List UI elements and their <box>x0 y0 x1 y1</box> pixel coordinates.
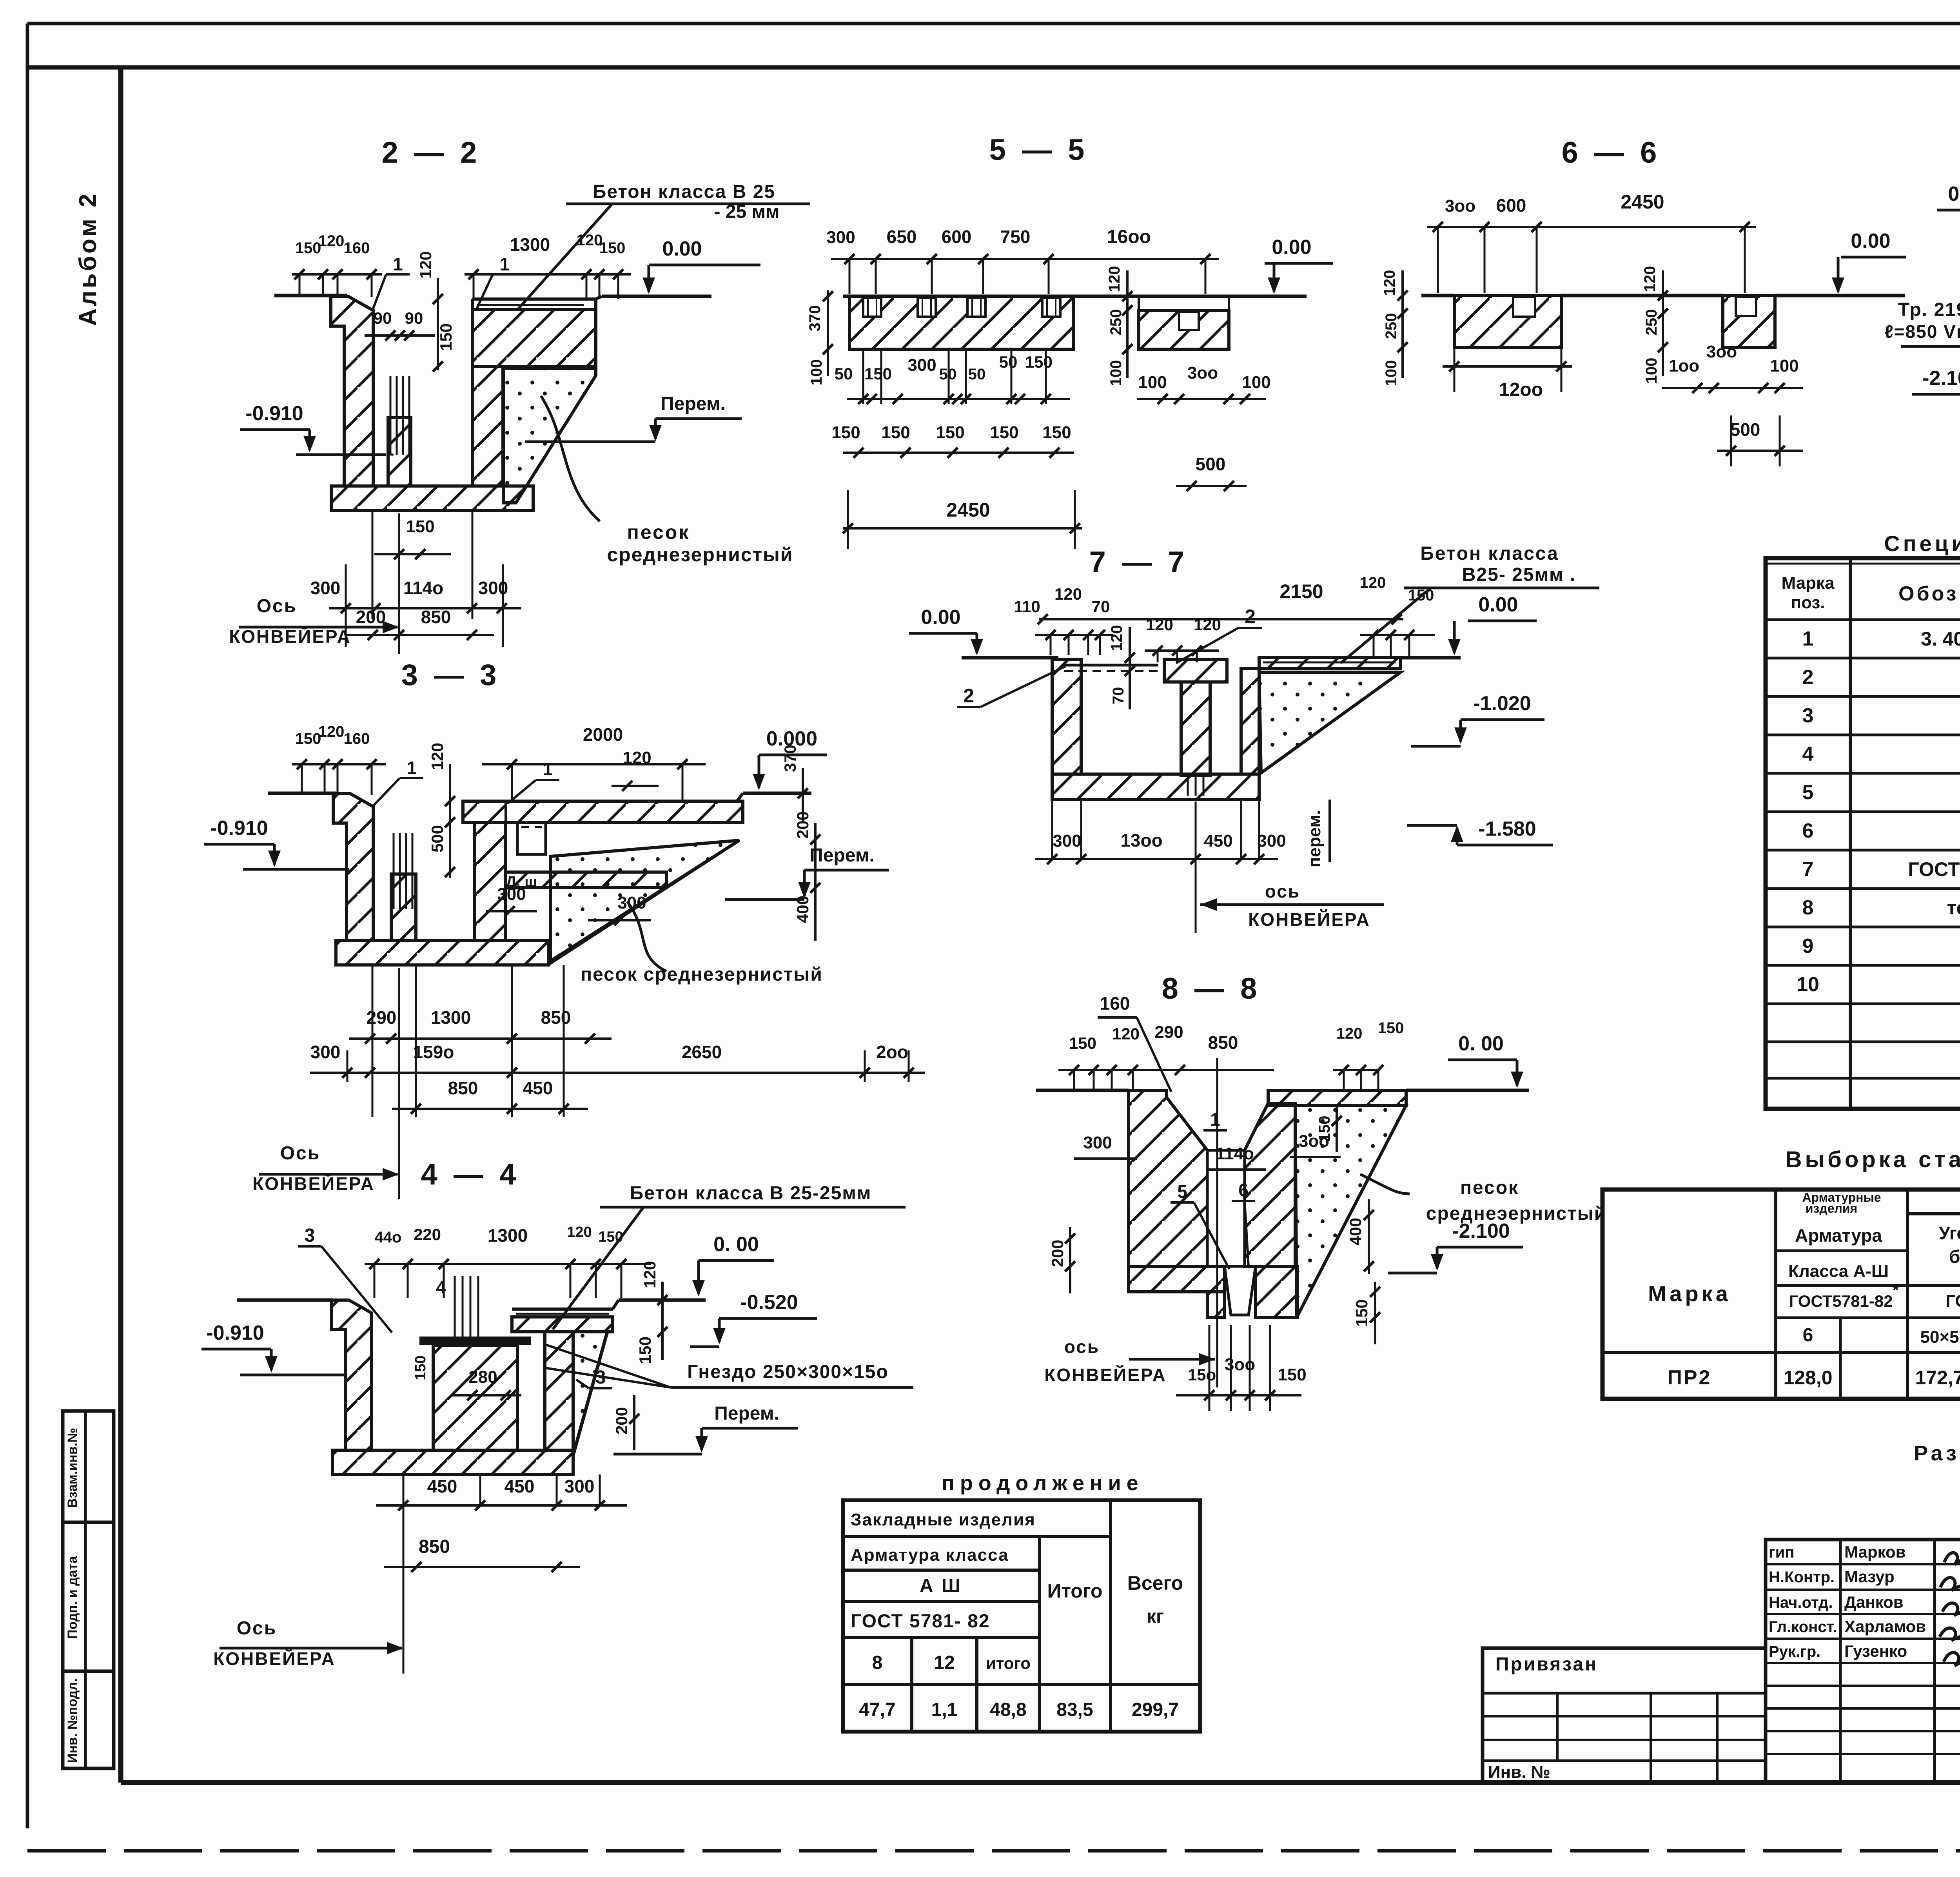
svg-text:-0.520: -0.520 <box>740 1291 798 1314</box>
svg-text:150: 150 <box>1278 1365 1306 1384</box>
section 4-4 ground left <box>237 1298 332 1302</box>
svg-text:0.00: 0.00 <box>921 606 960 629</box>
svg-text:1: 1 <box>499 254 510 274</box>
svg-text:Данков: Данков <box>1844 1593 1904 1611</box>
svg-text:120: 120 <box>567 1224 592 1240</box>
left margin stamp boxes <box>63 1411 114 1768</box>
section 5-5 top dims <box>831 258 1219 260</box>
svg-text:0. 00: 0. 00 <box>1458 1032 1504 1055</box>
svg-text:продолжение: продолжение <box>942 1471 1144 1495</box>
svg-text:12: 12 <box>934 1652 955 1673</box>
svg-text:160: 160 <box>344 239 370 257</box>
section 7-7 dim 2150 <box>1039 618 1403 620</box>
svg-text:ГОСТ 23279-85: ГОСТ 23279-85 <box>1908 858 1960 880</box>
svg-text:114о: 114о <box>403 578 443 598</box>
svg-text:7: 7 <box>1802 858 1814 881</box>
svg-text:ℓ=850 Vн- 2,4оо: ℓ=850 Vн- 2,4оо <box>1884 321 1960 342</box>
svg-text:150: 150 <box>1378 1019 1404 1037</box>
svg-text:КОНВЕЙЕРА: КОНВЕЙЕРА <box>229 626 351 647</box>
svg-text:6: 6 <box>1238 1180 1249 1200</box>
svg-text:поз.: поз. <box>1791 593 1825 612</box>
section 3-3 witness below <box>372 965 374 1117</box>
svg-text:КОНВЕЙЕРА: КОНВЕЙЕРА <box>1248 909 1370 930</box>
svg-text:70: 70 <box>1110 687 1127 705</box>
svg-text:150: 150 <box>599 239 626 257</box>
spec table grid <box>1766 558 1960 1109</box>
svg-text:ось: ось <box>1265 881 1300 901</box>
svg-text:100: 100 <box>1107 360 1125 386</box>
svg-text:150: 150 <box>295 239 321 257</box>
svg-text:48,8: 48,8 <box>990 1699 1026 1720</box>
svg-text:9: 9 <box>1802 935 1814 958</box>
svg-text:Нач.отд.: Нач.отд. <box>1769 1594 1833 1611</box>
section 2-2 partition stub <box>388 417 411 486</box>
section 3-3 dim 2000 <box>482 763 706 765</box>
svg-text:160: 160 <box>344 730 370 747</box>
inner frame <box>118 67 123 1783</box>
svg-text:120: 120 <box>1054 585 1082 603</box>
svg-text:кг: кг <box>1147 1606 1164 1627</box>
svg-text:Выборка стали на приямок: Выборка стали на приямок ПРм2 <box>1786 1147 1960 1172</box>
svg-text:120: 120 <box>428 743 446 770</box>
section 2-2 dim chain 300 1140 300 <box>329 607 521 609</box>
svg-text:Харламов: Харламов <box>1844 1617 1926 1636</box>
svg-text:8: 8 <box>872 1652 883 1673</box>
section 3-3 chain 290 1300 850 <box>349 1037 612 1040</box>
svg-text:2650: 2650 <box>682 1042 722 1062</box>
svg-text:750: 750 <box>1000 227 1031 247</box>
section 6-6 ground right <box>1775 294 1905 297</box>
section 2-2 dim chain 200 850 <box>345 634 494 636</box>
svg-text:114о: 114о <box>1216 1144 1254 1163</box>
svg-text:то же: то же <box>1947 897 1960 919</box>
svg-text:Всего: Всего <box>1127 1572 1183 1594</box>
section 7-7 top dims middle <box>1145 649 1219 652</box>
svg-text:2: 2 <box>1802 666 1814 689</box>
svg-text:400: 400 <box>1346 1218 1365 1245</box>
svg-text:Марка: Марка <box>1781 573 1835 593</box>
svg-text:3 — 3: 3 — 3 <box>401 658 501 692</box>
svg-text:3оо: 3оо <box>1187 363 1218 383</box>
section 8-8 left wall <box>1129 1090 1207 1266</box>
svg-text:150: 150 <box>295 730 321 747</box>
steel table grid <box>1602 1190 1960 1399</box>
signature table <box>1766 1540 1960 1783</box>
svg-text:3оо: 3оо <box>1225 1355 1255 1374</box>
svg-text:2: 2 <box>1245 606 1256 627</box>
svg-text:370: 370 <box>806 305 824 332</box>
svg-text:Мазур: Мазур <box>1844 1567 1895 1586</box>
svg-text:1оо: 1оо <box>1669 356 1699 375</box>
svg-text:150: 150 <box>990 423 1018 442</box>
svg-text:Перем.: Перем. <box>809 845 874 866</box>
svg-text:среднезернистый: среднезернистый <box>607 544 793 566</box>
svg-text:Ось: Ось <box>280 1143 321 1164</box>
section 5-5 top surface line <box>843 295 1307 298</box>
svg-text:300: 300 <box>1083 1133 1112 1152</box>
svg-text:850: 850 <box>419 1536 450 1557</box>
svg-text:150: 150 <box>437 323 455 351</box>
section 8-8 ground left <box>1036 1089 1129 1092</box>
svg-text:300: 300 <box>1257 831 1286 851</box>
svg-text:ГОСТ5781-82: ГОСТ5781-82 <box>1789 1292 1893 1310</box>
section 2-2 dowel bars <box>390 376 392 455</box>
svg-text:400: 400 <box>793 896 812 923</box>
svg-text:-1.020: -1.020 <box>1473 692 1531 715</box>
svg-text:120: 120 <box>1641 266 1659 292</box>
svg-text:А Ш: А Ш <box>920 1576 962 1596</box>
svg-text:120: 120 <box>641 1261 659 1288</box>
svg-text:КОНВЕЙЕРА: КОНВЕЙЕРА <box>1044 1365 1167 1385</box>
svg-text:500: 500 <box>428 825 446 852</box>
svg-text:1300: 1300 <box>510 234 550 255</box>
svg-text:Марка: Марка <box>1648 1281 1731 1306</box>
svg-text:90: 90 <box>374 309 392 327</box>
svg-text:120: 120 <box>1360 574 1386 591</box>
svg-text:КОНВЕЙЕРА: КОНВЕЙЕРА <box>213 1648 336 1669</box>
svg-text:5 — 5: 5 — 5 <box>989 133 1089 167</box>
svg-text:850: 850 <box>448 1078 478 1098</box>
svg-text:70: 70 <box>1092 597 1110 616</box>
svg-text:150: 150 <box>636 1337 654 1364</box>
svg-text:0.00: 0.00 <box>1948 183 1960 205</box>
svg-text:300: 300 <box>478 578 508 598</box>
svg-text:600: 600 <box>1496 195 1526 216</box>
privyazan box <box>1483 1648 1766 1783</box>
svg-text:Арматура: Арматура <box>1795 1225 1882 1246</box>
svg-text:128,0: 128,0 <box>1783 1367 1832 1389</box>
svg-text:370: 370 <box>781 745 799 772</box>
svg-text:150: 150 <box>598 1229 623 1245</box>
section 5-5 dim 500 <box>1176 485 1247 487</box>
svg-text:Бетон класса В 25: Бетон класса В 25 <box>593 181 775 202</box>
svg-text:Обозначение: Обозначение <box>1898 582 1960 605</box>
svg-text:300: 300 <box>497 885 526 904</box>
section 8-8 pocket <box>1225 1266 1256 1315</box>
svg-text:300: 300 <box>1053 831 1081 851</box>
svg-text:120: 120 <box>1108 625 1125 651</box>
svg-text:450: 450 <box>427 1476 457 1496</box>
section 7-7 ground right <box>1401 656 1461 660</box>
svg-text:5: 5 <box>1177 1181 1187 1202</box>
svg-text:280: 280 <box>468 1367 497 1387</box>
svg-text:Марков: Марков <box>1844 1543 1906 1561</box>
svg-text:500: 500 <box>1196 454 1226 474</box>
svg-text:Инв. №подл.: Инв. №подл. <box>65 1678 80 1763</box>
svg-text:Спецификация элементов при: Спецификация элементов приямка ПРм2 <box>1884 531 1960 556</box>
section 3-3 bottom slab <box>336 941 549 965</box>
section 6-6 channel right <box>1736 297 1756 316</box>
svg-text:гип: гип <box>1769 1544 1794 1561</box>
section 8-8 trough <box>1207 1150 1245 1266</box>
svg-text:100: 100 <box>1138 373 1167 392</box>
section 6-6 left slab <box>1454 296 1561 347</box>
svg-text:1: 1 <box>407 758 417 778</box>
svg-text:172,7: 172,7 <box>1915 1367 1960 1389</box>
svg-text:150: 150 <box>1069 1034 1096 1052</box>
section 4-4 left wall <box>332 1300 372 1450</box>
svg-text:100: 100 <box>1643 358 1660 384</box>
section 3-3 sand wedge <box>550 840 739 961</box>
svg-text:8 — 8: 8 — 8 <box>1162 972 1261 1005</box>
svg-text:100: 100 <box>808 359 825 386</box>
svg-text:450: 450 <box>505 1476 535 1496</box>
section 5-5 dim 2450 <box>843 527 1082 530</box>
section 3-3 top dims left <box>292 763 386 765</box>
svg-text:850: 850 <box>1208 1032 1238 1053</box>
svg-text:300: 300 <box>564 1476 595 1496</box>
svg-text:50: 50 <box>999 353 1018 371</box>
svg-text:850: 850 <box>421 607 451 627</box>
svg-text:-0.910: -0.910 <box>245 402 303 425</box>
svg-text:2450: 2450 <box>946 499 990 521</box>
svg-text:3оо: 3оо <box>1706 342 1737 361</box>
svg-text:290: 290 <box>1154 1023 1183 1042</box>
svg-text:250: 250 <box>1383 313 1400 339</box>
section 4-4 right wall <box>545 1332 573 1450</box>
svg-text:6 — 6: 6 — 6 <box>1562 136 1661 169</box>
svg-text:Ось: Ось <box>257 596 297 617</box>
section 2-2 screed lines <box>477 304 584 306</box>
section 4-4 plate dowels <box>454 1276 456 1337</box>
svg-text:Привязан: Привязан <box>1495 1654 1598 1675</box>
svg-text:Перем.: Перем. <box>714 1403 779 1424</box>
section 7-7 right slab <box>1259 658 1401 669</box>
section 7-7 bottom dims <box>1035 858 1278 860</box>
svg-text:90: 90 <box>405 309 423 327</box>
section 6-6 plateau line <box>1561 294 1723 297</box>
section 3-3 chain 300 1590 2650 200 <box>310 1072 925 1074</box>
svg-text:110: 110 <box>1014 597 1040 616</box>
section 8-8 bottom dims <box>1176 1394 1301 1396</box>
svg-text:Разрезы замаркированы на: Разрезы замаркированы на листе 18 <box>1914 1442 1960 1465</box>
section 7-7 right wall <box>1241 669 1259 774</box>
svg-text:200: 200 <box>356 607 386 627</box>
section 5-5 chain row1 <box>847 398 1070 400</box>
svg-text:В25- 25мм .: В25- 25мм . <box>1462 564 1576 585</box>
section 2-2 concrete left wall <box>331 296 373 486</box>
section 7-7 left wall <box>1052 659 1081 774</box>
section 5-5 channels left slab <box>863 298 881 317</box>
svg-text:*: * <box>1893 1281 1899 1299</box>
section 3-3 chain 850 450 <box>392 1108 588 1110</box>
svg-text:1: 1 <box>1210 1109 1220 1130</box>
section 3-3 mid slab <box>506 872 666 888</box>
sheet outer border <box>27 22 1960 25</box>
section 6-6 top dims <box>1427 226 1756 228</box>
svg-text:12оо: 12оо <box>1499 379 1543 400</box>
svg-text:4 — 4: 4 — 4 <box>421 1158 520 1191</box>
section 7-7 pedestal <box>1164 659 1227 682</box>
svg-text:150: 150 <box>936 423 964 442</box>
svg-text:44о: 44о <box>375 1229 402 1246</box>
section 5-5 left slab <box>849 296 1073 349</box>
svg-text:КОНВЕЙЕРА: КОНВЕЙЕРА <box>252 1173 375 1194</box>
section 4-4 sand wedge <box>573 1332 607 1455</box>
svg-text:250: 250 <box>1643 309 1660 336</box>
section 3-3 upper slab <box>463 801 743 822</box>
svg-text:2150: 2150 <box>1279 580 1323 602</box>
svg-text:Гл.конст.: Гл.конст. <box>1769 1618 1837 1636</box>
svg-text:13оо: 13оо <box>1120 830 1162 851</box>
svg-text:0.00: 0.00 <box>1478 593 1518 616</box>
section 3-3 ground right <box>743 792 811 795</box>
svg-text:120: 120 <box>1112 1025 1140 1043</box>
svg-text:песок: песок <box>627 521 690 543</box>
section 7-7 ground left <box>962 656 1058 660</box>
svg-text:Инв. №: Инв. № <box>1488 1763 1550 1782</box>
svg-text:150: 150 <box>1316 1116 1333 1142</box>
svg-text:120: 120 <box>416 251 435 279</box>
svg-text:160: 160 <box>1100 993 1130 1014</box>
svg-text:песок среднезернистый: песок среднезернистый <box>581 964 823 985</box>
svg-text:ось: ось <box>1064 1337 1100 1357</box>
svg-text:300: 300 <box>617 893 646 912</box>
section 8-8 right slab <box>1268 1090 1406 1105</box>
svg-text:Бетон класса: Бетон класса <box>1420 543 1559 564</box>
svg-text:2 — 2: 2 — 2 <box>382 136 481 169</box>
continuation table grid <box>843 1500 1200 1732</box>
svg-text:Итого: Итого <box>1047 1580 1102 1602</box>
svg-text:150: 150 <box>881 423 910 442</box>
section 5-5 chain row2 <box>843 452 1074 454</box>
section 3-3 embedded duct <box>517 822 546 854</box>
section 4-4 pedestal <box>433 1345 517 1450</box>
svg-text:83,5: 83,5 <box>1056 1699 1093 1720</box>
svg-text:150: 150 <box>406 517 434 536</box>
section 8-8 top dims <box>1058 1069 1274 1071</box>
svg-text:бокий: бокий <box>1949 1246 1960 1267</box>
section 3-3 right deep wall <box>474 822 506 941</box>
svg-text:-2.100: -2.100 <box>1922 367 1960 390</box>
svg-text:220: 220 <box>414 1225 441 1244</box>
svg-text:450: 450 <box>1204 831 1232 851</box>
section 4-4 embedded plate <box>420 1337 530 1344</box>
svg-text:Бетон класса В 25-25мм: Бетон класса В 25-25мм <box>630 1183 872 1204</box>
svg-text:150: 150 <box>1025 353 1053 371</box>
section 3-3 partition stub <box>391 874 416 941</box>
svg-text:1300: 1300 <box>488 1225 528 1246</box>
svg-text:-0.910: -0.910 <box>210 817 268 840</box>
section 4-4 ground right <box>619 1298 706 1302</box>
svg-text:Гузенко: Гузенко <box>1844 1642 1907 1660</box>
section 4-4 top dims <box>365 1263 651 1265</box>
section 6-6 right slab <box>1723 296 1775 347</box>
svg-text:0.00: 0.00 <box>1272 236 1311 259</box>
svg-text:0.00: 0.00 <box>1851 230 1890 252</box>
svg-text:120: 120 <box>318 723 345 740</box>
svg-text:300: 300 <box>907 355 936 375</box>
svg-text:итого: итого <box>986 1654 1031 1672</box>
svg-text:120: 120 <box>622 748 651 767</box>
section 7-7 embedded plate left <box>1064 664 1158 667</box>
section 5-5 chain row1 right <box>1137 398 1266 400</box>
svg-text:150: 150 <box>864 365 892 383</box>
svg-text:200: 200 <box>612 1407 631 1434</box>
svg-text:2000: 2000 <box>583 724 623 745</box>
section 2-2 right wall <box>472 366 503 486</box>
section 2-2 top flange <box>472 310 596 366</box>
section 8-8 sand wedge <box>1295 1105 1406 1317</box>
svg-text:150: 150 <box>412 1355 429 1380</box>
svg-text:100: 100 <box>1383 360 1400 386</box>
svg-text:6: 6 <box>1803 1325 1813 1346</box>
svg-text:8: 8 <box>1802 896 1814 919</box>
top band line <box>27 65 1960 70</box>
section 6-6 channel left <box>1513 297 1535 317</box>
svg-text:1,1: 1,1 <box>931 1699 958 1720</box>
svg-text:7 — 7: 7 — 7 <box>1089 546 1189 579</box>
section 7-7 top dims left group <box>1035 634 1113 636</box>
section 3-3 diag line <box>549 840 739 964</box>
svg-text:Н.Контр.: Н.Контр. <box>1769 1569 1835 1586</box>
svg-text:50: 50 <box>835 365 853 383</box>
svg-text:песок: песок <box>1460 1177 1519 1198</box>
svg-text:150: 150 <box>1408 587 1434 604</box>
section 6-6 dim 1200 <box>1443 365 1572 368</box>
svg-text:4: 4 <box>1802 743 1814 765</box>
svg-text:6: 6 <box>1802 820 1814 842</box>
svg-text:850: 850 <box>541 1007 571 1028</box>
svg-text:150: 150 <box>1042 423 1071 442</box>
svg-text:Гнездо 250×300×15о: Гнездо 250×300×15о <box>687 1362 889 1382</box>
svg-text:10: 10 <box>1797 973 1819 996</box>
section 4-4 right flange <box>512 1317 613 1332</box>
section 5-5 right slab <box>1139 310 1229 349</box>
svg-text:2оо: 2оо <box>876 1042 908 1062</box>
section 2-2 top dims right <box>465 273 631 276</box>
svg-text:Альбом 2: Альбом 2 <box>74 191 102 326</box>
svg-text:1: 1 <box>543 759 553 779</box>
svg-text:300: 300 <box>310 1042 341 1062</box>
svg-text:Рук.гр.: Рук.гр. <box>1769 1643 1820 1660</box>
svg-text:Перем.: Перем. <box>661 394 725 414</box>
svg-text:3. 400 – 6/76: 3. 400 – 6/76 <box>1921 628 1960 650</box>
svg-text:-1.580: -1.580 <box>1478 818 1536 840</box>
svg-text:120: 120 <box>1106 266 1123 292</box>
svg-text:перем.: перем. <box>1305 810 1324 868</box>
svg-text:1300: 1300 <box>431 1007 471 1028</box>
svg-text:ПР2: ПР2 <box>1668 1366 1712 1389</box>
svg-text:150: 150 <box>1352 1299 1371 1327</box>
section 7-7 bottom slab <box>1052 774 1259 800</box>
svg-text:500: 500 <box>1730 419 1760 440</box>
svg-text:5: 5 <box>1802 781 1814 804</box>
svg-text:-2.100: -2.100 <box>1452 1220 1510 1242</box>
svg-text:3: 3 <box>1802 704 1814 727</box>
svg-text:120: 120 <box>1381 270 1398 296</box>
section 4-4 bottom slab <box>332 1450 573 1474</box>
svg-text:50: 50 <box>939 366 957 383</box>
svg-text:1: 1 <box>1802 627 1814 650</box>
section 8-8 ground right <box>1406 1089 1529 1092</box>
section 8-8 bottom slab <box>1129 1266 1225 1292</box>
section 2-2 ground line left <box>274 294 347 297</box>
svg-text:Подп. и дата: Подп. и дата <box>65 1556 80 1639</box>
section 4-4 chain 450 450 300 <box>376 1504 627 1507</box>
section 4-4 dim 850 <box>384 1566 580 1568</box>
svg-text:15о: 15о <box>1188 1366 1216 1384</box>
signatures scribbles <box>1944 1553 1960 1569</box>
svg-text:120: 120 <box>1336 1025 1363 1042</box>
svg-text:Арматура класса: Арматура класса <box>851 1545 1009 1565</box>
svg-text:47,7: 47,7 <box>859 1699 895 1720</box>
section 8-8 top dims right <box>1333 1069 1380 1071</box>
svg-text:Закладные изделия: Закладные изделия <box>851 1510 1036 1529</box>
svg-text:200: 200 <box>1048 1240 1067 1267</box>
section 2-2 witness lines below <box>372 510 374 619</box>
svg-text:-0.910: -0.910 <box>206 1322 264 1344</box>
